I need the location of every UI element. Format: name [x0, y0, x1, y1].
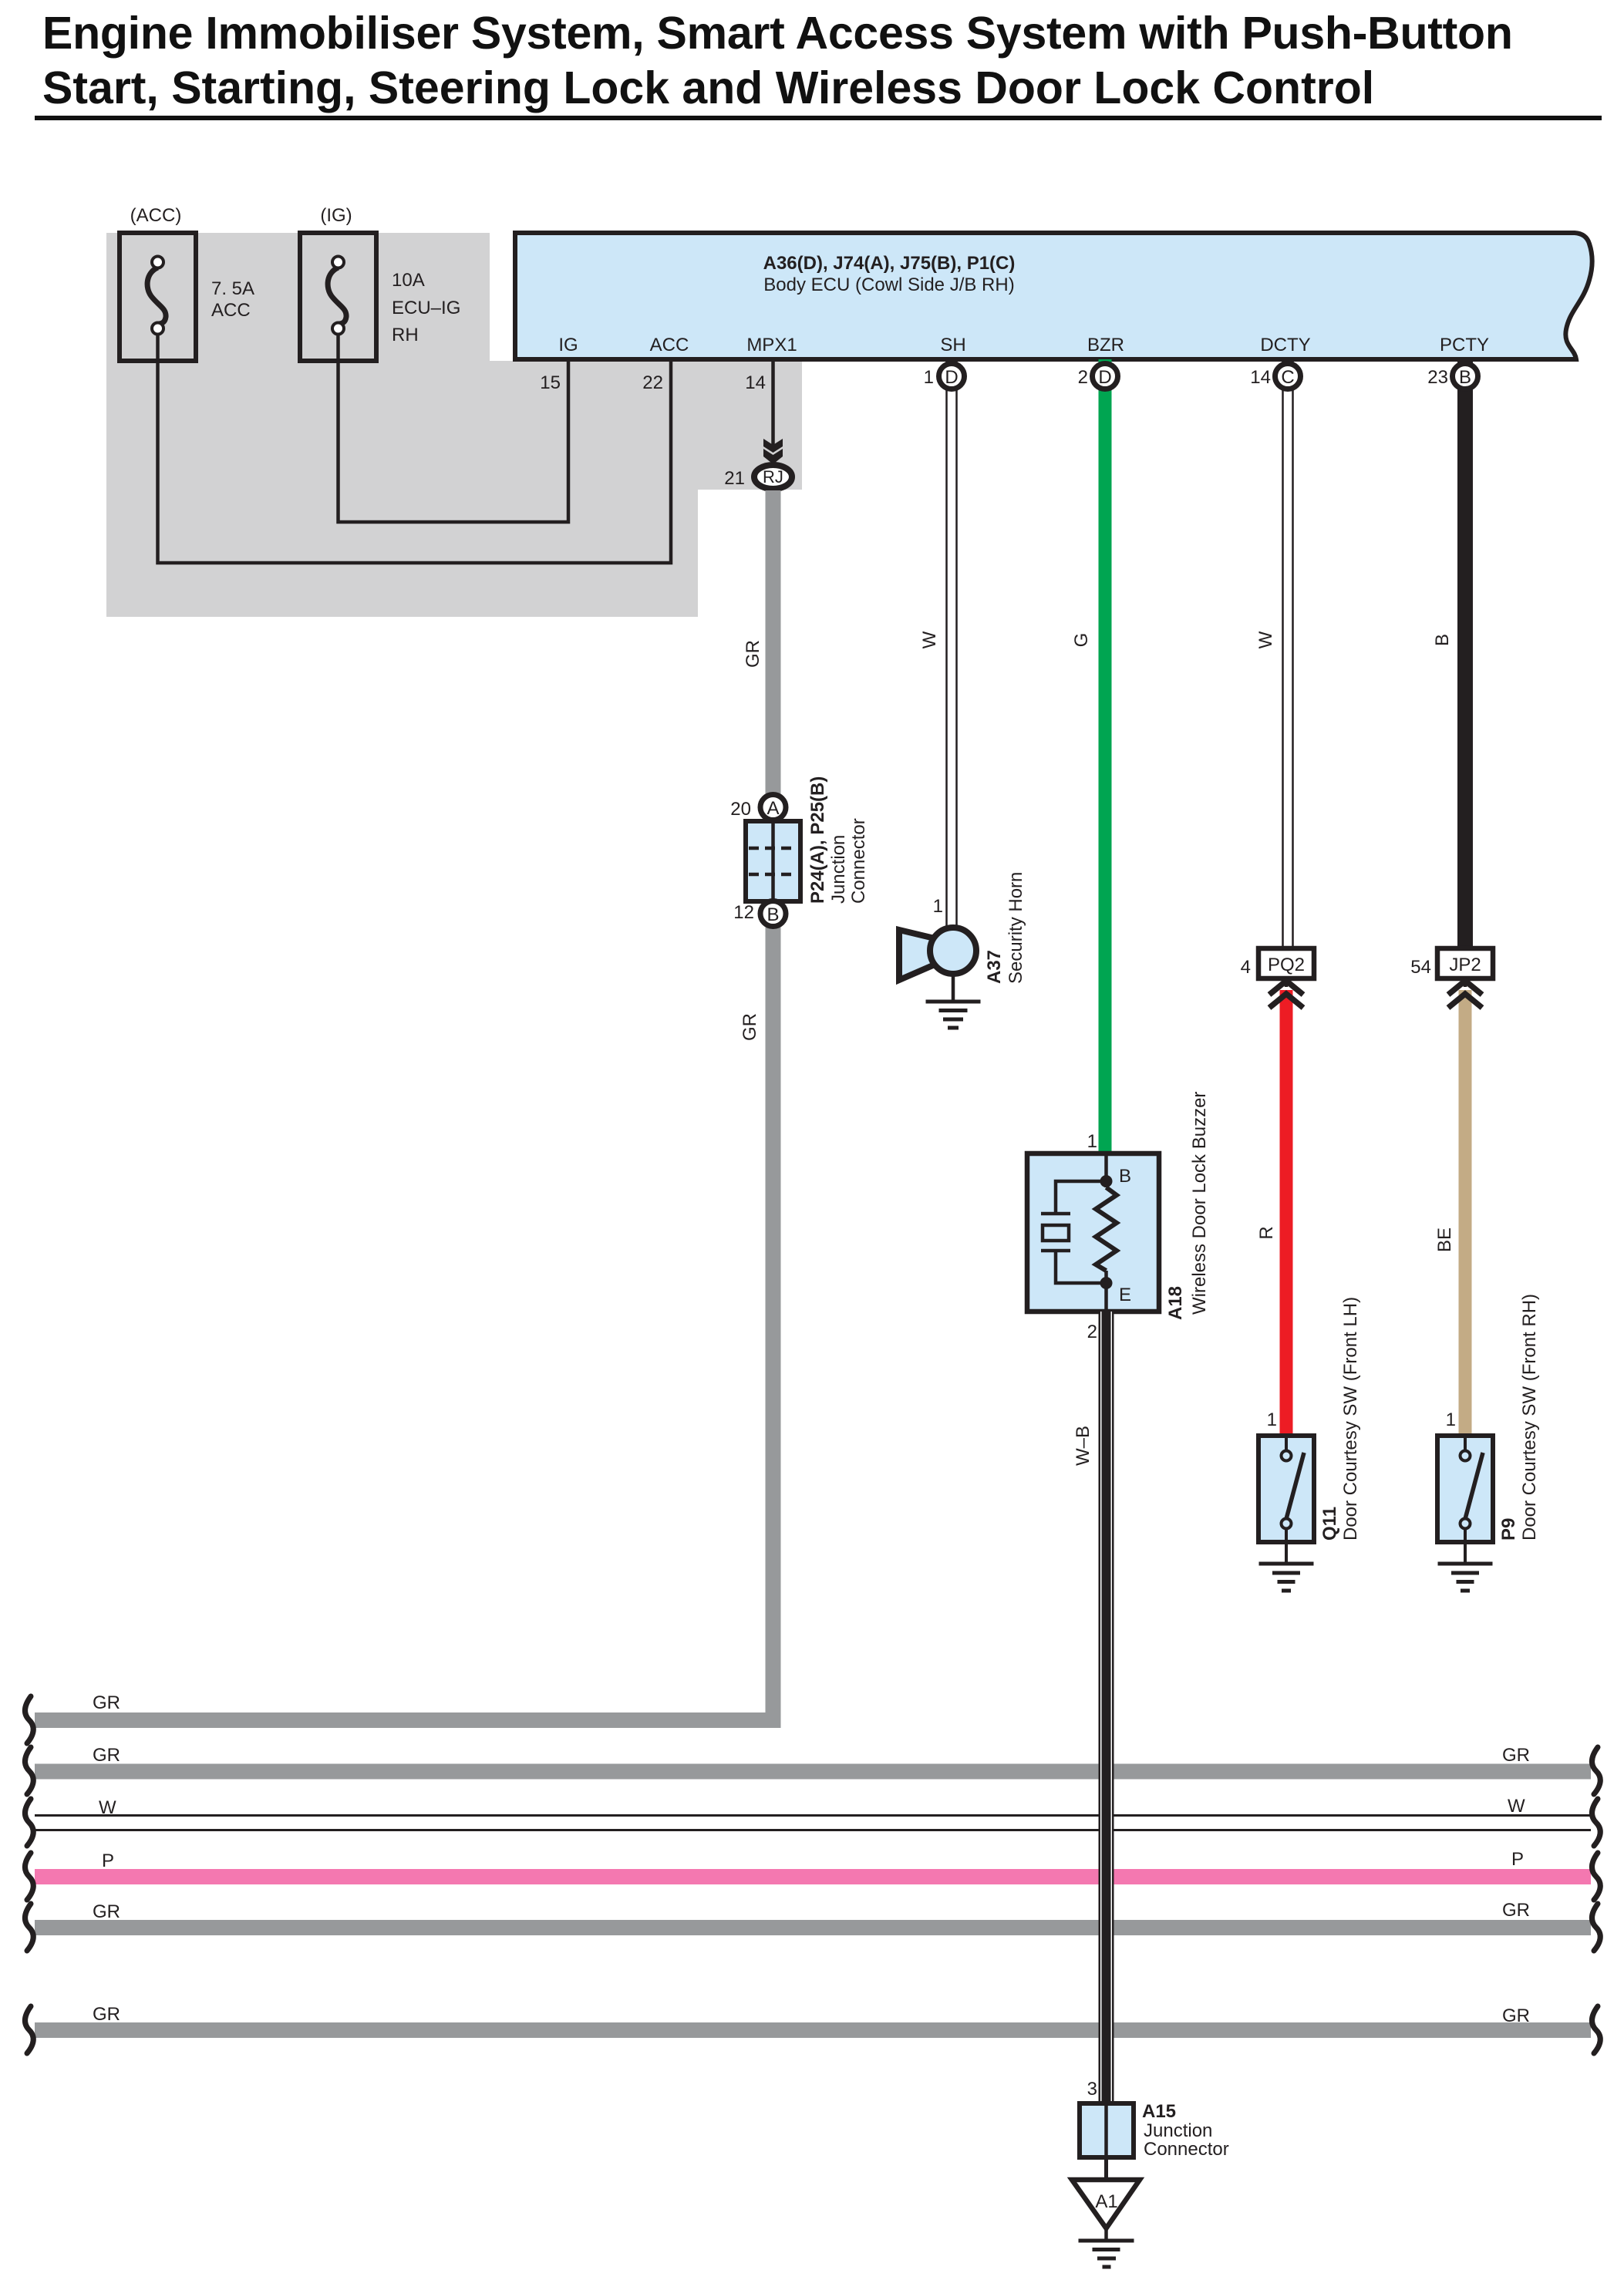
red wire R (DCTY to Q11)	[1280, 990, 1293, 1436]
fuse F1 symbol	[147, 268, 166, 324]
svg-text:PCTY: PCTY	[1440, 335, 1489, 355]
svg-text:B: B	[1432, 634, 1453, 646]
W-B wire (buzzer pin 2 to A15)	[1099, 1312, 1114, 2103]
bus break squiggles left	[25, 1696, 33, 2053]
svg-text:P24(A), P25(B): P24(A), P25(B)	[807, 776, 828, 904]
svg-text:1: 1	[1446, 1409, 1456, 1430]
svg-text:54: 54	[1410, 957, 1431, 978]
svg-text:4: 4	[1241, 957, 1251, 978]
svg-text:(ACC): (ACC)	[130, 205, 182, 226]
svg-text:SH: SH	[940, 335, 965, 355]
node B	[1100, 1175, 1113, 1187]
svg-text:B: B	[1119, 1166, 1131, 1187]
SH white wire	[945, 359, 948, 928]
bus GR 4	[35, 2022, 1591, 2038]
svg-text:GR: GR	[93, 1692, 120, 1713]
svg-text:Door Courtesy SW (Front RH): Door Courtesy SW (Front RH)	[1519, 1294, 1540, 1541]
fuse F1 7.5A ACC box	[120, 233, 196, 361]
door courtesy switch P9 box	[1437, 1436, 1493, 1542]
security horn A37 trumpet	[899, 930, 935, 980]
svg-text:W: W	[1508, 1796, 1525, 1817]
svg-text:W: W	[919, 631, 940, 648]
node E	[1100, 1277, 1113, 1289]
svg-text:P: P	[102, 1851, 114, 1871]
piezo capacitor plates	[1041, 1212, 1070, 1216]
svg-text:RH: RH	[392, 325, 419, 345]
svg-text:GR: GR	[1502, 1745, 1530, 1766]
svg-text:1: 1	[924, 367, 934, 388]
svg-text:21: 21	[724, 468, 745, 489]
svg-text:10A: 10A	[392, 270, 425, 291]
svg-text:D: D	[945, 367, 958, 388]
svg-text:Wireless Door Lock Buzzer: Wireless Door Lock Buzzer	[1189, 1092, 1210, 1315]
svg-text:P9: P9	[1498, 1518, 1519, 1541]
buzzer internal wire B	[1104, 1153, 1108, 1187]
svg-text:DCTY: DCTY	[1260, 335, 1310, 355]
node RJ	[754, 465, 792, 489]
bus break squiggles right	[1592, 1747, 1600, 2053]
svg-text:GR: GR	[93, 1745, 120, 1766]
GR wire from RJ to bus1	[766, 490, 781, 1728]
svg-text:A: A	[767, 798, 779, 819]
DCTY white wire	[1282, 359, 1284, 951]
Q11 switch contacts and lever	[1286, 1453, 1304, 1519]
svg-text:B: B	[767, 904, 779, 925]
svg-text:G: G	[1071, 633, 1092, 648]
ground (horn)	[926, 1000, 981, 1004]
fuse F2 symbol	[328, 268, 346, 324]
title underline	[35, 116, 1602, 120]
gray background region	[106, 233, 802, 617]
resistor (buzzer)	[1096, 1187, 1117, 1271]
svg-text:Junction: Junction	[828, 835, 849, 904]
svg-text:A18: A18	[1165, 1286, 1186, 1320]
title	[42, 6, 1513, 116]
svg-text:Q11: Q11	[1319, 1507, 1340, 1541]
svg-text:W: W	[1255, 631, 1276, 648]
svg-text:IG: IG	[558, 335, 578, 355]
svg-text:GR: GR	[93, 2004, 120, 2025]
bus GR 3	[35, 1920, 1591, 1935]
svg-text:22: 22	[642, 372, 663, 393]
svg-text:Security Horn: Security Horn	[1006, 872, 1026, 984]
svg-text:MPX1: MPX1	[746, 335, 797, 355]
junction connector P24(A),P25(B) pin A circle	[760, 795, 786, 820]
wire fuse IG to ECU pin 15	[339, 334, 569, 522]
svg-text:12: 12	[733, 902, 754, 923]
svg-text:A15: A15	[1142, 2101, 1176, 2122]
bus W	[35, 1814, 1591, 1817]
svg-text:A37: A37	[984, 950, 1005, 984]
wireless door lock buzzer A18 box	[1027, 1153, 1159, 1312]
svg-text:1: 1	[1087, 1131, 1097, 1152]
piezo capacitor branch wire	[1056, 1181, 1107, 1214]
svg-text:GR: GR	[1502, 1900, 1530, 1921]
bus GR 2	[35, 1764, 1591, 1780]
tan wire BE (PCTY to P9)	[1459, 990, 1472, 1436]
svg-text:W–B: W–B	[1073, 1426, 1093, 1466]
svg-text:B: B	[1459, 367, 1471, 388]
junction connector P24(A),P25(B) box	[746, 821, 800, 901]
svg-text:W: W	[99, 1797, 116, 1818]
buzzer internal wire E	[1104, 1271, 1108, 1312]
svg-text:P: P	[1511, 1849, 1524, 1870]
svg-text:14: 14	[745, 372, 766, 393]
wire fuse ACC to ECU pin 22	[158, 334, 672, 563]
BZR green wire G	[1099, 359, 1112, 1153]
svg-text:1: 1	[1267, 1409, 1277, 1430]
svg-text:Connector: Connector	[848, 818, 869, 904]
ground stem A1	[1104, 2228, 1108, 2241]
svg-text:JP2: JP2	[1449, 955, 1481, 975]
svg-text:GR: GR	[1502, 2005, 1530, 2026]
ground triangle A1	[1072, 2180, 1140, 2228]
svg-text:14: 14	[1250, 367, 1271, 388]
svg-text:PQ2: PQ2	[1268, 955, 1305, 975]
PCTY black wire B	[1457, 359, 1473, 951]
svg-text:RJ: RJ	[763, 467, 783, 487]
security horn A37 body	[930, 928, 976, 974]
PQ2 chevrons	[1285, 978, 1289, 987]
bus GR 1 (left partial, joins GR wire)	[35, 1712, 781, 1728]
ground (Q11)	[1259, 1562, 1314, 1566]
horn ground stem	[952, 974, 955, 1002]
wire A15 to ground A1	[1104, 2157, 1108, 2180]
connector PQ2	[1258, 948, 1314, 978]
svg-text:R: R	[1256, 1226, 1277, 1239]
svg-text:D: D	[1098, 367, 1111, 388]
P9 switch contacts and lever	[1465, 1453, 1483, 1519]
JP2 chevrons	[1464, 978, 1467, 987]
connector JP2	[1437, 948, 1493, 978]
svg-text:2: 2	[1078, 367, 1088, 388]
svg-text:15: 15	[540, 372, 561, 393]
svg-text:GR: GR	[743, 640, 763, 668]
svg-text:Body ECU (Cowl Side J/B RH): Body ECU (Cowl Side J/B RH)	[763, 274, 1014, 295]
svg-text:GR: GR	[93, 1901, 120, 1922]
svg-text:23: 23	[1427, 367, 1448, 388]
door courtesy switch Q11 box	[1258, 1436, 1314, 1542]
svg-text:7. 5A: 7. 5A	[211, 278, 254, 299]
svg-text:BE: BE	[1434, 1228, 1455, 1252]
ground (A1)	[1079, 2239, 1134, 2243]
svg-text:Door Courtesy SW (Front LH): Door Courtesy SW (Front LH)	[1340, 1297, 1361, 1541]
svg-text:A36(D), J74(A), J75(B), P1(C): A36(D), J74(A), J75(B), P1(C)	[763, 253, 1016, 274]
junction connector A15	[1080, 2103, 1134, 2157]
svg-text:GR: GR	[740, 1013, 760, 1041]
svg-text:A1: A1	[1095, 2191, 1117, 2212]
svg-text:E: E	[1119, 1285, 1131, 1305]
svg-text:20: 20	[730, 799, 751, 820]
piezo element	[1043, 1225, 1069, 1241]
svg-text:BZR: BZR	[1087, 335, 1124, 355]
svg-text:ECU–IG: ECU–IG	[392, 298, 460, 318]
bus P (pink)	[35, 1869, 1591, 1884]
junction connector P24(A),P25(B) pin B circle	[760, 901, 786, 927]
svg-text:Junction: Junction	[1144, 2120, 1212, 2141]
svg-text:1: 1	[933, 896, 943, 917]
MPX1 arrow to RJ	[763, 439, 783, 453]
svg-text:3: 3	[1087, 2079, 1097, 2100]
fuse F2 10A ECU-IG RH box	[300, 233, 376, 361]
ground (P9)	[1438, 1562, 1493, 1566]
svg-text:ACC: ACC	[650, 335, 689, 355]
svg-text:(IG): (IG)	[320, 205, 352, 226]
svg-text:Connector: Connector	[1144, 2139, 1229, 2160]
svg-text:C: C	[1281, 367, 1294, 388]
svg-text:ACC: ACC	[211, 300, 251, 321]
svg-text:2: 2	[1087, 1322, 1097, 1342]
Body ECU box A36(D), J74(A), J75(B), P1(C)	[515, 233, 1592, 359]
MPX1 wire	[771, 359, 775, 450]
